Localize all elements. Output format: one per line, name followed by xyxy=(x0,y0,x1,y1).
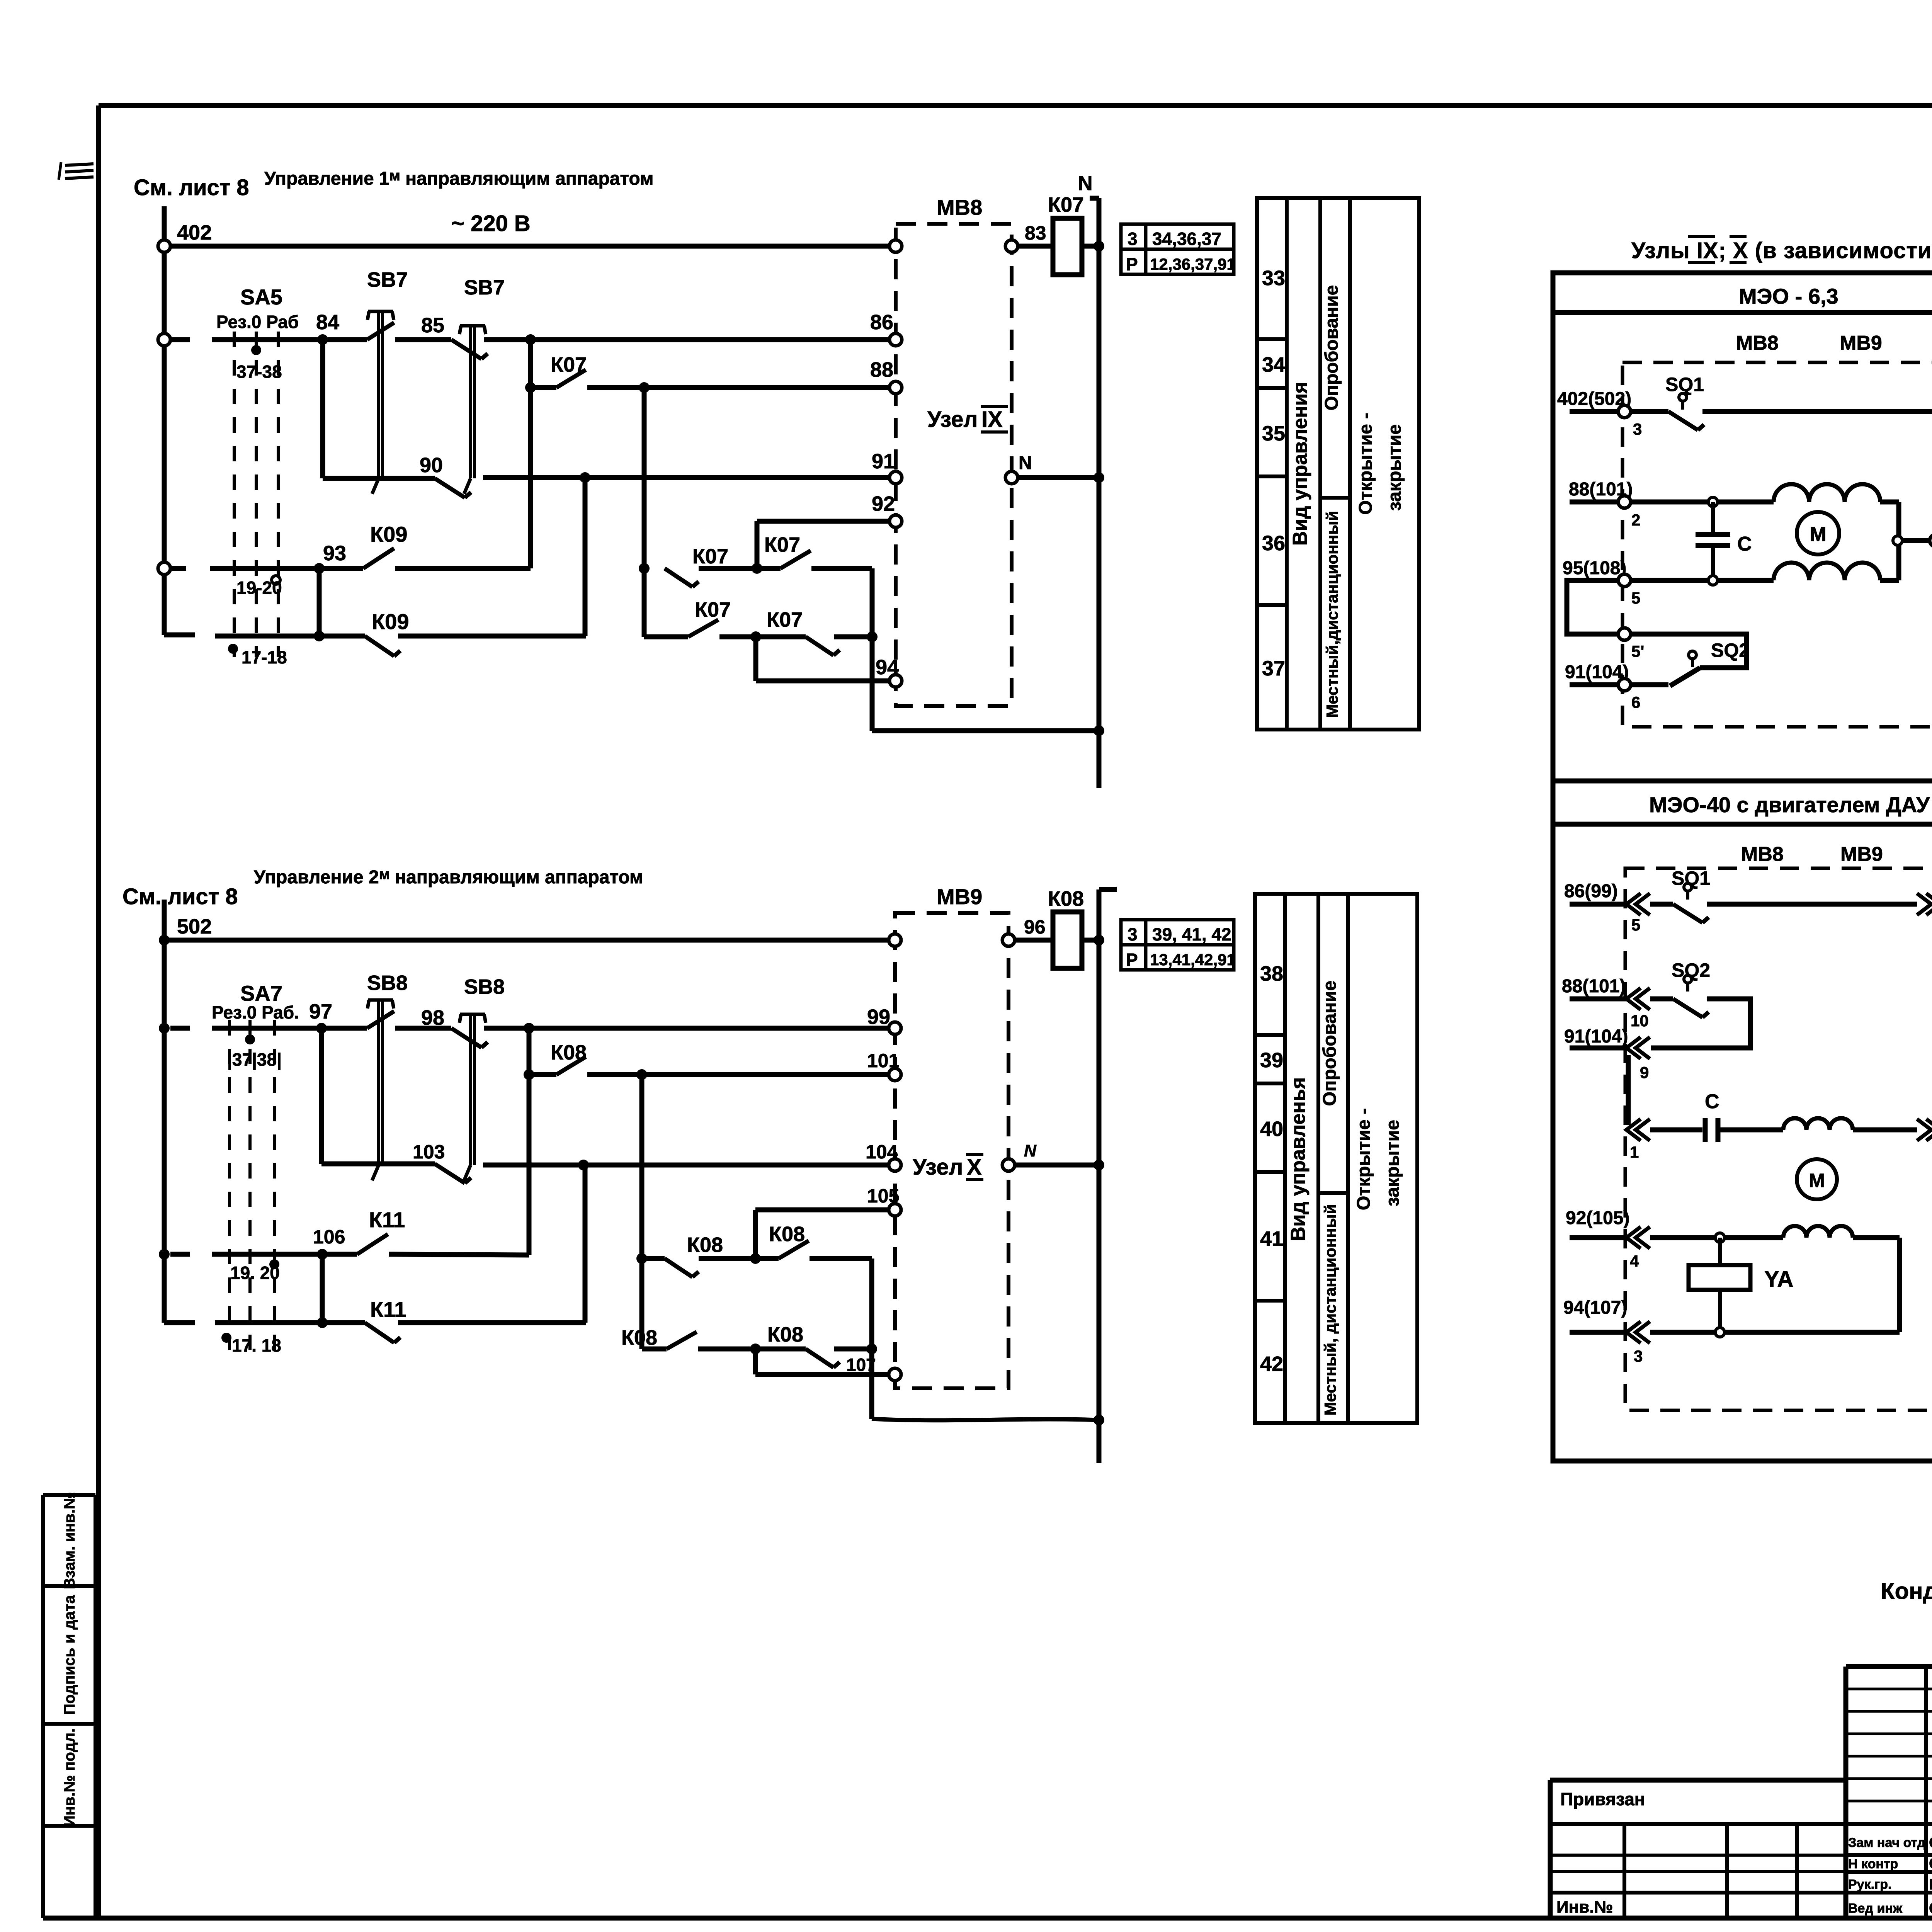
MEO-6,3 wire row2 corner xyxy=(1880,500,1899,505)
node 106 xyxy=(317,1249,328,1260)
wire 104 xyxy=(483,1163,889,1168)
signature table verticals xyxy=(1844,1667,1849,1918)
svg-text:3: 3 xyxy=(1128,229,1138,249)
svg-text:90: 90 xyxy=(420,454,443,477)
node K07 row1 xyxy=(639,563,650,574)
svg-text:IX: IX xyxy=(981,407,1003,432)
mode table circuit2 xyxy=(1255,894,1417,1423)
ref table 3/P circuit1 xyxy=(1121,224,1234,274)
node B2 row1 xyxy=(750,1253,761,1264)
wire relay K08 to N bus xyxy=(1082,938,1099,943)
MEO-6,3 bracket 5 to 5prime xyxy=(1567,580,1618,634)
node B row1 xyxy=(752,563,762,574)
pushbutton SB7 no.2 stem xyxy=(460,324,485,328)
wire 96 xyxy=(1015,938,1053,943)
svg-text:МЭО-40 с двигателем ДАУ: МЭО-40 с двигателем ДАУ xyxy=(1649,793,1930,817)
svg-text:99: 99 xyxy=(867,1005,890,1029)
wire 98 xyxy=(395,1026,451,1031)
svg-text:17-18: 17-18 xyxy=(241,647,287,667)
node row2 c2 xyxy=(750,1344,761,1354)
svg-text:3: 3 xyxy=(1128,924,1138,944)
pushbutton SB8 no.1 stem xyxy=(368,998,393,1002)
contact K07 (NC) row1 xyxy=(665,568,692,587)
wire 90 (from node 84 down and right) xyxy=(320,340,325,478)
relay coil K07 xyxy=(1053,218,1082,275)
svg-text:SA5: SA5 xyxy=(240,285,282,309)
svg-text:91: 91 xyxy=(872,450,895,473)
uzly outer box xyxy=(1553,273,1932,781)
svg-text:40: 40 xyxy=(1260,1117,1283,1141)
svg-text:YA: YA xyxy=(1764,1267,1793,1292)
bus corner to bottom row xyxy=(164,633,195,638)
DAU row5 corner xyxy=(1853,1235,1900,1240)
svg-text:9: 9 xyxy=(1640,1063,1649,1082)
svg-text:Огиенко: Огиенко xyxy=(1929,1855,1932,1872)
svg-text:Н контр: Н контр xyxy=(1848,1857,1898,1871)
wire 402 xyxy=(158,240,170,252)
switch SA7 dashed columns xyxy=(228,1020,231,1352)
vertical corner to bottom link c2 xyxy=(869,1259,874,1419)
svg-text:К08: К08 xyxy=(1048,887,1084,910)
svg-text:С: С xyxy=(1705,1090,1719,1113)
svg-text:МВ8: МВ8 xyxy=(1736,332,1779,354)
svg-text:Опробование: Опробование xyxy=(1321,285,1342,411)
wire 99 xyxy=(484,1026,889,1031)
MEO-6,3 winding bottom xyxy=(1774,563,1880,580)
wire 97-98-99 row xyxy=(159,1023,170,1034)
contact K11 (NO) row 106 xyxy=(322,1252,357,1257)
svg-text:39, 41, 42: 39, 41, 42 xyxy=(1152,924,1231,944)
node 101/K08 block junction xyxy=(636,1069,647,1080)
svg-text:107: 107 xyxy=(846,1355,876,1375)
contact K11 (NC) bottom row xyxy=(322,1320,365,1325)
contact SB7.2 lower (NC) row 90-91 xyxy=(435,478,465,498)
svg-text:84: 84 xyxy=(316,311,339,334)
mode table circuit1 xyxy=(1257,198,1419,730)
svg-text:К08: К08 xyxy=(769,1223,805,1246)
MEO-6,3 wire row2 xyxy=(1631,500,1774,505)
wire 107 branch xyxy=(753,1349,758,1374)
svg-text:SB8: SB8 xyxy=(367,971,408,995)
svg-text:См. лист 8: См. лист 8 xyxy=(134,175,249,200)
node bus circuit2 xyxy=(162,900,167,1323)
svg-text:502: 502 xyxy=(177,915,212,938)
DAU winding row5 xyxy=(1783,1226,1853,1238)
actuator box MV8 (dashed) xyxy=(896,224,1012,706)
contact SB8.1 (NO) row 97-98 xyxy=(321,1026,367,1031)
MEO-6,3 wire row3 xyxy=(1631,578,1774,583)
node 88/K07 block junction xyxy=(639,382,650,393)
wire 101 xyxy=(587,1072,889,1077)
svg-text:Рез.0 Раб.: Рез.0 Раб. xyxy=(212,1002,299,1022)
vertical node106 to bottom row xyxy=(320,1254,325,1323)
switch SA5 dashed columns xyxy=(233,332,236,657)
svg-text:SA7: SA7 xyxy=(240,981,282,1005)
contact K07 (NO) row2 xyxy=(688,620,718,637)
bus corner to bottom row c2 xyxy=(164,1320,195,1325)
svg-text:|37|38|: |37|38| xyxy=(227,1049,282,1070)
svg-text:83: 83 xyxy=(1025,222,1046,244)
svg-text:37-38: 37-38 xyxy=(236,362,282,382)
SA7 contact dot 37|38 xyxy=(245,1034,255,1044)
DAU panel box xyxy=(1553,781,1932,1461)
svg-text:5: 5 xyxy=(1631,589,1640,607)
svg-text:33: 33 xyxy=(1262,267,1285,290)
node 104 junction xyxy=(578,1160,589,1170)
DAU row5 wire xyxy=(1650,1235,1783,1240)
contact SB7.2 (NC) on row 85-86 xyxy=(451,340,481,359)
svg-text:К08: К08 xyxy=(621,1326,657,1349)
node bus circuit1 (left vertical) xyxy=(162,206,167,635)
svg-text:Подпись и дата: Подпись и дата xyxy=(61,1595,78,1715)
svg-text:88: 88 xyxy=(870,358,893,381)
svg-text:МВ8: МВ8 xyxy=(1741,843,1784,866)
contact K07 (NC) row2 right xyxy=(806,637,833,655)
svg-text:36: 36 xyxy=(1262,532,1285,555)
svg-text:Инв.№: Инв.№ xyxy=(1556,1898,1613,1917)
svg-text:SB8: SB8 xyxy=(464,975,505,998)
DAU SQ2 loop xyxy=(1650,997,1673,1002)
DAU row4 chevron pin1 xyxy=(1626,1119,1641,1141)
signature table thin rows xyxy=(1846,1688,1932,1690)
svg-text:94(107): 94(107) xyxy=(1563,1298,1627,1318)
vertical link 99 to 106 row xyxy=(527,1028,532,1255)
node bottom row xyxy=(314,631,325,641)
DAU row6 wire xyxy=(1650,1330,1900,1335)
svg-text:93: 93 xyxy=(323,542,346,565)
bottom link to N bus c2 xyxy=(872,1419,1099,1420)
wire 83 xyxy=(1018,244,1053,249)
node row2 xyxy=(750,631,761,642)
vertical 101 to K08 rows xyxy=(639,1075,645,1349)
contact K07 (NO) row1 right xyxy=(781,551,811,568)
svg-text:закрытие: закрытие xyxy=(1383,1120,1403,1206)
svg-text:Инв.№ подл.: Инв.№ подл. xyxy=(61,1728,78,1827)
MEO-6,3 dashed box MV8/MV9 xyxy=(1622,362,1932,727)
wire 91 xyxy=(483,475,889,480)
riser to node 104 xyxy=(583,1165,588,1323)
node 99 junction xyxy=(524,1023,534,1034)
svg-text:3: 3 xyxy=(1633,420,1642,438)
svg-text:19. 20: 19. 20 xyxy=(230,1263,280,1283)
DAU link down to C row xyxy=(1626,1055,1631,1125)
wire row2 xyxy=(719,634,806,639)
DAU solenoid YA xyxy=(1718,1238,1722,1332)
SA5 contact dot 37-38 xyxy=(251,345,261,355)
svg-text:103: 103 xyxy=(413,1141,445,1163)
contact SB7.1 (NO) on row 84-85 xyxy=(323,337,367,342)
MEO-6,3 wire motor to pin1 xyxy=(1902,538,1930,543)
svg-text:41: 41 xyxy=(1260,1227,1283,1250)
contact SB8.2 (NC) row 98-99 xyxy=(451,1028,481,1048)
node bottom row c2 xyxy=(317,1317,328,1328)
svg-text:12,36,37,91: 12,36,37,91 xyxy=(1150,255,1236,273)
vertical corner row1 to bottom link xyxy=(870,568,875,731)
svg-text:К07: К07 xyxy=(767,608,803,631)
svg-text:МВ9: МВ9 xyxy=(1840,332,1882,354)
svg-text:402: 402 xyxy=(177,221,212,244)
ref table 3/P circuit2 xyxy=(1121,920,1234,970)
svg-text:98: 98 xyxy=(421,1006,444,1029)
svg-text:Островский: Островский xyxy=(1929,1834,1932,1851)
relay coil K08 xyxy=(1053,912,1082,968)
svg-text:закрытие: закрытие xyxy=(1384,424,1405,511)
svg-text:К07: К07 xyxy=(695,598,731,621)
svg-text:~ 220 В: ~ 220 В xyxy=(451,211,531,236)
svg-text:N: N xyxy=(1078,172,1093,195)
K08 row2 corner xyxy=(642,1347,667,1352)
svg-text:85: 85 xyxy=(421,314,444,337)
svg-text:Управление 2м направляющим апп: Управление 2м направляющим аппаратом xyxy=(254,866,643,888)
svg-text:91(104): 91(104) xyxy=(1564,1026,1628,1047)
svg-text:К07: К07 xyxy=(764,533,800,556)
svg-text:Взам. инв.№: Взам. инв.№ xyxy=(61,1492,78,1589)
wire N row c2 xyxy=(1015,1163,1099,1168)
svg-text:34,36,37: 34,36,37 xyxy=(1152,229,1221,249)
left stamp column boxes xyxy=(41,1495,45,1918)
node on row 88 xyxy=(525,382,536,393)
SA5 contact circle 19-20 xyxy=(272,576,280,584)
svg-text:См. лист 8: См. лист 8 xyxy=(122,884,238,909)
svg-text:Р: Р xyxy=(1126,950,1138,970)
terminal circles MV8 right edge xyxy=(1005,240,1018,252)
contact K09 (NC) bottom row xyxy=(319,634,365,639)
svg-text:Вид управления: Вид управления xyxy=(1289,382,1311,546)
title block top line xyxy=(1846,1664,1932,1669)
wire row1 to corner c2 xyxy=(810,1256,872,1261)
contact K08 (NC) row1 xyxy=(642,1256,665,1261)
wire relay to N bus xyxy=(1082,244,1099,249)
row 93: bus terminal xyxy=(158,562,170,575)
svg-text:37: 37 xyxy=(1262,657,1285,680)
svg-text:Узел: Узел xyxy=(913,1155,963,1180)
svg-text:38: 38 xyxy=(1260,962,1283,985)
node 84 xyxy=(317,334,328,345)
svg-text:К11: К11 xyxy=(370,1297,406,1321)
svg-text:М: М xyxy=(1809,1170,1825,1191)
wire 502 xyxy=(159,935,170,946)
wire to node B2 xyxy=(699,1256,779,1261)
svg-text:5': 5' xyxy=(1631,642,1644,660)
svg-text:86: 86 xyxy=(870,311,893,334)
DAU dashed box xyxy=(1625,868,1932,1410)
svg-text:С: С xyxy=(1737,533,1752,555)
wire 94 branch xyxy=(753,637,759,681)
svg-text:4: 4 xyxy=(1630,1252,1639,1270)
svg-text:92: 92 xyxy=(872,492,895,515)
svg-text:SB7: SB7 xyxy=(464,276,505,299)
svg-text:Опробование: Опробование xyxy=(1320,981,1340,1106)
MEO-6,3 SQ2 slash xyxy=(1670,668,1700,686)
K07 row2 corner xyxy=(644,634,688,639)
N bus circuit2 xyxy=(1099,887,1117,892)
svg-text:К07: К07 xyxy=(1048,193,1084,216)
svg-text:Управление 1м направляющим апп: Управление 1м направляющим аппаратом xyxy=(264,168,654,189)
wire 106 to link xyxy=(389,1254,529,1255)
svg-text:Открытие -: Открытие - xyxy=(1354,1108,1374,1210)
wire 92 branch xyxy=(755,521,760,568)
riser to node 91 xyxy=(583,478,588,636)
DAU capacitor C xyxy=(1650,1128,1702,1133)
MEO-6,3 left stubs xyxy=(1570,409,1618,414)
node 93 xyxy=(314,563,325,574)
svg-text:106: 106 xyxy=(313,1226,345,1248)
svg-text:97: 97 xyxy=(309,1000,332,1023)
contact K08 (NO) row 101 xyxy=(529,1072,556,1077)
svg-text:2: 2 xyxy=(1631,511,1640,529)
svg-text:1: 1 xyxy=(1630,1143,1639,1161)
svg-text:35: 35 xyxy=(1262,422,1285,445)
wire 84-85-86 row xyxy=(158,333,170,346)
svg-text:Рук.гр.: Рук.гр. xyxy=(1848,1877,1891,1892)
border frame top xyxy=(99,103,1932,108)
contact K08 (NC) row2 right xyxy=(806,1349,833,1367)
svg-text:Кондиционер: Кондиционер xyxy=(1881,1578,1932,1604)
svg-text:SB7: SB7 xyxy=(367,268,408,291)
row 106: bus node xyxy=(159,1249,170,1260)
wire bottom K11 to riser xyxy=(398,1320,586,1325)
SA7 contact dot 19.20 xyxy=(269,1259,279,1269)
uzly header divider xyxy=(1553,310,1932,315)
svg-text:10: 10 xyxy=(1631,1012,1649,1030)
svg-text:Местный, дистанционный: Местный, дистанционный xyxy=(1321,1204,1339,1416)
svg-text:Вид управленья: Вид управленья xyxy=(1287,1077,1310,1241)
svg-text:N: N xyxy=(1019,453,1032,473)
svg-text:Привязан: Привязан xyxy=(1560,1789,1645,1809)
svg-text:88(101): 88(101) xyxy=(1562,976,1626,997)
wire 85 xyxy=(395,337,451,342)
node 91 junction xyxy=(580,472,590,483)
svg-text:К07: К07 xyxy=(551,353,587,376)
svg-text:Р: Р xyxy=(1126,254,1138,274)
svg-text:5: 5 xyxy=(1631,916,1640,934)
svg-text:39: 39 xyxy=(1260,1049,1283,1072)
svg-text:SQ2: SQ2 xyxy=(1711,639,1750,661)
wire to node B xyxy=(699,566,781,571)
svg-text:МЭО - 6,3: МЭО - 6,3 xyxy=(1739,284,1838,308)
svg-text:19-20: 19-20 xyxy=(236,578,282,598)
svg-text:96: 96 xyxy=(1024,916,1046,938)
actuator box MV9 (dashed) xyxy=(895,913,1009,1388)
svg-text:Зам нач отд: Зам нач отд xyxy=(1848,1835,1925,1850)
terminal circles MV9 right edge xyxy=(1002,934,1015,946)
wire 105 branch xyxy=(753,1210,758,1259)
svg-text:Открытие -: Открытие - xyxy=(1355,413,1376,515)
svg-text:К07: К07 xyxy=(692,545,728,568)
DAU left stubs xyxy=(1570,902,1626,907)
DAU header divider xyxy=(1553,822,1932,827)
vertical 88 to K07 rows xyxy=(642,388,647,637)
terminal circles MV8 left edge xyxy=(889,240,902,252)
svg-text:Вед инж: Вед инж xyxy=(1848,1901,1903,1916)
svg-text:13,41,42,91: 13,41,42,91 xyxy=(1150,951,1236,969)
signature table labeled rows xyxy=(1846,1822,1932,1826)
svg-text:МВ9: МВ9 xyxy=(1840,843,1883,866)
svg-text:42: 42 xyxy=(1260,1352,1283,1376)
node row2 right c2 xyxy=(866,1344,877,1354)
DAU row4 to N xyxy=(1853,1128,1917,1133)
node K08 row1 xyxy=(636,1253,647,1264)
svg-text:Узлы IX; X (в зависимости от: Узлы IX; X (в зависимости от типа исполн… xyxy=(1631,238,1932,263)
svg-text:34: 34 xyxy=(1262,353,1285,376)
pushbutton SB7 no.1 stem xyxy=(368,310,393,313)
N bus circuit1 xyxy=(1090,196,1099,201)
svg-text:6: 6 xyxy=(1631,693,1640,711)
node row2 right xyxy=(867,631,878,642)
svg-text:86(99): 86(99) xyxy=(1564,881,1618,901)
svg-text:К08: К08 xyxy=(551,1041,587,1064)
MEO-6,3 SQ2 loop xyxy=(1631,634,1747,668)
svg-text:17. 18: 17. 18 xyxy=(232,1335,281,1355)
svg-text:Узел: Узел xyxy=(927,407,978,432)
svg-text:МВ9: МВ9 xyxy=(937,884,982,909)
left margin mark Sh xyxy=(65,164,94,165)
wire 103 (from node 97 down) xyxy=(319,1028,324,1164)
MEO-6,3 row3 corner to motor node xyxy=(1880,578,1899,583)
bottom link to N bus xyxy=(872,728,1099,733)
svg-text:Савелова: Савелова xyxy=(1929,1900,1932,1917)
DAU row1 wire to 83(96) xyxy=(1707,902,1917,907)
DAU winding row4 xyxy=(1783,1118,1853,1130)
svg-text:К08: К08 xyxy=(687,1233,723,1257)
wire row2 c2 xyxy=(698,1347,806,1352)
svg-text:М: М xyxy=(1810,523,1826,546)
node 86/88 junction xyxy=(525,334,536,345)
MEO-6,3 wire row1 to 2prime xyxy=(1702,409,1932,414)
vertical node93 to bottom row xyxy=(317,568,322,636)
border frame left xyxy=(96,105,101,1918)
wire 93 to link xyxy=(395,566,531,571)
svg-text:92(105): 92(105) xyxy=(1566,1208,1629,1228)
SA7 contact dot 17.18 xyxy=(221,1333,231,1343)
MEO-6,3 winding top xyxy=(1774,484,1880,502)
svg-text:3: 3 xyxy=(1634,1347,1643,1365)
motor M MEO-6,3 xyxy=(1797,512,1839,554)
terminal circles MV9 left edge xyxy=(889,934,901,946)
wire: vertical link 86 to 93 row xyxy=(528,340,533,568)
wire row1 to corner xyxy=(811,566,872,571)
svg-text:X: X xyxy=(967,1155,982,1180)
wire bottom K09 to riser xyxy=(398,634,586,639)
svg-text:Гинодман: Гинодман xyxy=(1929,1876,1932,1893)
svg-text:95(108): 95(108) xyxy=(1563,558,1626,578)
privyazan block xyxy=(1548,1780,1553,1918)
wire N row xyxy=(1018,475,1099,480)
contact K09 (NO) on row 93 xyxy=(319,566,363,571)
border frame bottom xyxy=(43,1916,1932,1921)
pushbutton SB8 no.2 stem xyxy=(460,1013,485,1016)
wire 88 xyxy=(587,385,889,390)
wire 86 xyxy=(484,337,889,342)
SA5 contact dot 17-18 xyxy=(228,644,238,654)
contact K08 (NO) row1 right xyxy=(779,1241,809,1259)
node row 101 xyxy=(524,1069,534,1080)
node 97 xyxy=(316,1023,327,1034)
capacitor C MEO-6,3 xyxy=(1711,502,1715,534)
contact SB8.2 lower (NC) row 103-104 xyxy=(435,1164,465,1183)
svg-text:К09: К09 xyxy=(370,522,407,546)
contact K08 (NO) row2 xyxy=(667,1332,697,1349)
DAU motor M xyxy=(1797,1159,1837,1199)
svg-text:Местный,дистанционный: Местный,дистанционный xyxy=(1323,511,1341,718)
svg-text:Рез.0 Раб: Рез.0 Раб xyxy=(216,312,299,332)
svg-text:N: N xyxy=(1024,1141,1037,1160)
node N bottom junction xyxy=(1094,725,1104,736)
svg-text:МВ8: МВ8 xyxy=(937,195,982,219)
svg-text:К08: К08 xyxy=(767,1323,803,1346)
svg-text:SQ1: SQ1 xyxy=(1665,374,1704,395)
svg-text:К09: К09 xyxy=(372,609,409,634)
